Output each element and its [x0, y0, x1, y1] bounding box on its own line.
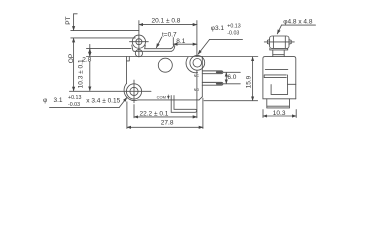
- 15.9 bottom extension line: [204, 100, 258, 102]
- PT top reference tick: [74, 13, 78, 15]
- svg-text:OP: OP: [68, 54, 75, 63]
- 27.8 right extension line: [202, 98, 204, 128]
- side view inner panel: [271, 85, 288, 95]
- bottom-left boss arc: [124, 84, 138, 101]
- COM terminal L-shape: [171, 96, 197, 113]
- COM label arrow: [168, 95, 170, 99]
- bottom-right chamfer: [199, 97, 202, 100]
- lever top extension line: [87, 48, 132, 50]
- lever bottom edge: [134, 50, 171, 52]
- side view bracket left leg: [272, 50, 274, 57]
- side view left trunnion: [267, 40, 269, 45]
- 20.1 dimension line: [139, 24, 197, 26]
- NO pin tip extension line: [223, 83, 240, 85]
- phi3.1 top leader: [198, 39, 210, 54]
- svg-text:PT: PT: [65, 16, 72, 24]
- lever pivot circle: [135, 50, 142, 57]
- NO pin filled tip: [216, 83, 222, 85]
- side view roller end cap lines: [273, 36, 285, 48]
- right hole lower extension line: [196, 71, 198, 118]
- side view foot: [267, 99, 290, 108]
- roller vertical centerline / 20.1 left extension: [138, 21, 140, 57]
- NC pin tip extension line: [223, 71, 240, 73]
- svg-text:COM: COM: [157, 95, 166, 100]
- NC terminal pin: [202, 71, 222, 74]
- 20.1/8.1 right extension line: [196, 21, 198, 57]
- svg-text:NO: NO: [194, 88, 200, 92]
- top-right boss arc: [186, 57, 197, 73]
- 10.3 right extension tick: [295, 110, 297, 118]
- side view flange band: [264, 75, 286, 78]
- top-left interior corner step: [127, 57, 130, 61]
- svg-text:6.0: 6.0: [227, 74, 236, 81]
- lever clevis right edge: [144, 45, 147, 49]
- side view bracket crossbar: [273, 54, 284, 56]
- svg-text:3.1: 3.1: [54, 97, 63, 104]
- roller horizontal centerline: [130, 41, 149, 43]
- body left edge: [126, 57, 128, 84]
- side view bracket flange: [270, 48, 288, 50]
- svg-text:20.1 ± 0.8: 20.1 ± 0.8: [152, 18, 181, 25]
- side view bracket right leg: [283, 50, 285, 57]
- PT upper dimension line segment: [73, 14, 75, 31]
- side view right trunnion: [289, 40, 291, 45]
- 2.8 upper arrow: [89, 49, 91, 52]
- svg-text:t=0.7: t=0.7: [162, 32, 177, 39]
- phi4.8 callout underline: [282, 24, 316, 26]
- 10.3 left extension tick: [262, 110, 264, 118]
- svg-text:x 3.4 ± 0.15: x 3.4 ± 0.15: [86, 97, 120, 104]
- svg-text:φ3.1: φ3.1: [211, 25, 225, 32]
- body top edge with left 2.8 extension and right 15.9 extension: [86, 56, 257, 58]
- lever top edge: [145, 48, 171, 50]
- bottom-left mounting hole: [126, 84, 141, 99]
- svg-text:-0.03: -0.03: [68, 102, 80, 108]
- phi3.1 bottom callout underline: [50, 106, 120, 108]
- svg-text:+0.13: +0.13: [227, 23, 240, 29]
- body right edge: [201, 57, 203, 97]
- 10.3 dimension line: [263, 115, 296, 117]
- side view body outline: [263, 57, 296, 99]
- svg-text:φ4.8 x 4.8: φ4.8 x 4.8: [283, 18, 313, 25]
- lever clevis left edge: [132, 45, 134, 51]
- svg-text:10.3: 10.3: [273, 110, 286, 117]
- free position line: [71, 30, 139, 32]
- svg-text:8.1: 8.1: [176, 38, 185, 45]
- side view lower full-width line: [263, 98, 296, 100]
- 22.2 dimension line: [134, 116, 197, 118]
- 8.1 dimension line: [173, 43, 197, 45]
- NO terminal pin: [202, 82, 222, 85]
- 8.1 left extension tick: [172, 38, 174, 45]
- phi4.8 leader: [277, 25, 281, 34]
- svg-text:10.3 ± 0.1: 10.3 ± 0.1: [78, 59, 85, 88]
- body bottom edge: [138, 99, 199, 101]
- 27.8 left extension line: [126, 102, 128, 129]
- 6.0 dimension line: [225, 73, 227, 84]
- svg-text:-0.03: -0.03: [227, 30, 239, 36]
- roller inner circle: [136, 39, 142, 45]
- svg-text:NC: NC: [194, 74, 200, 78]
- hole horizontal centerline / OP,10.3 extension: [70, 90, 152, 92]
- side view roller body: [270, 36, 289, 48]
- side view roller axis centerline: [264, 41, 294, 43]
- bottom-left hole vertical centerline: [133, 80, 135, 118]
- 27.8 dimension line: [127, 126, 203, 128]
- roller outer circle: [132, 35, 145, 48]
- NC pin filled tip: [216, 71, 222, 73]
- side view inner vertical edge: [287, 75, 289, 84]
- svg-text:22.2 ± 0.1: 22.2 ± 0.1: [140, 110, 169, 117]
- side view right step line: [288, 83, 296, 85]
- lever bent tip: [170, 46, 175, 52]
- 15.9 dimension line: [252, 57, 254, 101]
- 10.3 dimension line: [89, 62, 91, 91]
- svg-text:+0.13: +0.13: [68, 95, 81, 101]
- top-right mounting hole: [190, 55, 205, 70]
- svg-text:15.9: 15.9: [246, 75, 253, 88]
- phi3.1 top callout underline: [210, 38, 243, 40]
- operating position line: [71, 37, 136, 39]
- t=0.7 leader: [156, 37, 161, 48]
- svg-text:27.8: 27.8: [161, 119, 174, 126]
- svg-text:φ: φ: [43, 97, 47, 104]
- 2.8 dimension line: [89, 44, 91, 56]
- plunger circle: [158, 58, 172, 72]
- OP dimension line: [73, 38, 75, 91]
- side view internal line upper: [265, 69, 288, 71]
- phi3.1 bottom leader: [119, 98, 127, 108]
